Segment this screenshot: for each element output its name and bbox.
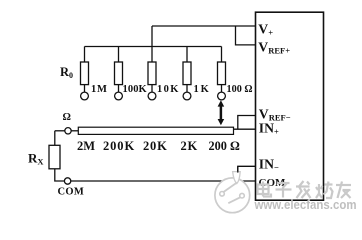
wire R 1M bottom lead bbox=[84, 85, 86, 93]
resistor R0 100ohm bbox=[218, 62, 226, 85]
watermark char dian bbox=[258, 182, 272, 197]
wire R 1K bottom lead bbox=[186, 85, 188, 93]
wire step to VREF- pin bbox=[238, 116, 256, 130]
svg-text:20K: 20K bbox=[143, 139, 168, 153]
svg-text:200K: 200K bbox=[103, 139, 135, 153]
terminal node COM bbox=[64, 178, 70, 184]
wire COM to chip COM pin bbox=[71, 180, 256, 182]
svg-text:10K: 10K bbox=[157, 84, 180, 95]
terminal node 100ohm bbox=[218, 92, 226, 100]
wire R 100ohm bottom lead bbox=[221, 85, 223, 93]
svg-text:100K: 100K bbox=[123, 84, 148, 95]
resistor R0 1K bbox=[183, 62, 191, 85]
wiper arrow (double headed) bbox=[218, 100, 225, 125]
resistor R0 100K bbox=[115, 62, 123, 85]
wire drop to R 100ohm bbox=[221, 47, 223, 63]
wire top bus bbox=[85, 46, 222, 48]
svg-text:1K: 1K bbox=[194, 84, 211, 95]
watermark char shao bbox=[316, 182, 333, 199]
svg-text:COM: COM bbox=[58, 187, 85, 198]
wire Rx bottom to COM node bbox=[55, 169, 65, 181]
resistor R0 1M bbox=[81, 62, 89, 85]
wire ohm terminal to slide bar bbox=[71, 130, 78, 132]
svg-text:2M: 2M bbox=[77, 139, 95, 153]
wire riser and drop at R 10K bbox=[151, 26, 153, 62]
wire R 100K bottom lead bbox=[118, 85, 120, 93]
terminal node 1K bbox=[183, 92, 191, 100]
slide bar (range resistor strip) bbox=[78, 127, 233, 134]
svg-text:200 Ω: 200 Ω bbox=[209, 139, 241, 153]
svg-text:100 Ω: 100 Ω bbox=[227, 84, 253, 95]
wire drop to R 1K bbox=[186, 47, 188, 63]
wire left of ohm terminal bbox=[55, 130, 65, 132]
terminal node 10K bbox=[148, 92, 156, 100]
watermark char zi bbox=[276, 183, 292, 198]
wire step up to IN- pin bbox=[238, 166, 256, 181]
wire R 10K bottom lead bbox=[151, 85, 153, 93]
watermark logo circle bbox=[215, 172, 250, 213]
terminal node 100K bbox=[115, 92, 123, 100]
wire bar to IN+ pin bbox=[234, 128, 256, 130]
svg-text:www.elecfans.com: www.elecfans.com bbox=[254, 198, 357, 212]
wire stub to VREF+ pin bbox=[236, 26, 256, 45]
terminal node ohm bbox=[65, 128, 71, 134]
wire segment over logo notch bbox=[237, 166, 239, 172]
svg-text:Ω: Ω bbox=[63, 112, 71, 123]
svg-text:2K: 2K bbox=[181, 139, 199, 153]
IC U1 body bbox=[256, 12, 324, 200]
svg-text:1M: 1M bbox=[91, 84, 108, 95]
resistor Rx bbox=[49, 145, 60, 169]
wire to V+ pin bbox=[152, 25, 256, 27]
wire ohm terminal down to Rx bbox=[54, 131, 56, 146]
watermark char fa bbox=[296, 181, 311, 198]
wire drop to R 1M bbox=[84, 47, 86, 63]
resistor R0 10K bbox=[148, 62, 156, 85]
wire drop to R 100K bbox=[118, 47, 120, 63]
watermark char you bbox=[336, 182, 351, 199]
terminal node 1M bbox=[81, 92, 89, 100]
